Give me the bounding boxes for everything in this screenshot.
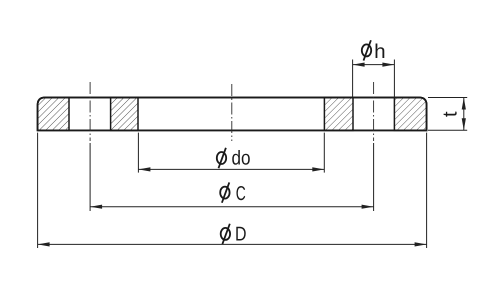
- dimension phi-do extension lines: [137, 133, 139, 173]
- hatched rim right: [394, 98, 426, 131]
- label phi-h symbol: [362, 40, 371, 60]
- dimension phi-h line: [353, 64, 395, 66]
- svg-text:C: C: [236, 183, 246, 205]
- label phi-do symbol: [217, 148, 226, 168]
- outline redraw on top: [38, 98, 427, 131]
- svg-text:h: h: [374, 41, 386, 63]
- svg-text:D: D: [235, 224, 247, 246]
- dimension phi-D line: [38, 243, 427, 245]
- dimension t line: [463, 98, 465, 131]
- svg-text:do: do: [232, 148, 251, 170]
- dimension phi-C line: [90, 206, 374, 208]
- hatched rim left: [38, 98, 69, 131]
- hatched web right: [324, 98, 353, 131]
- flange section body outline: [38, 98, 427, 131]
- centerline left bolt: [89, 82, 91, 141]
- dimension t extension lines: [428, 97, 467, 99]
- hatched web left (between bolt hole and bore): [111, 98, 138, 131]
- dimension phi-do line: [138, 168, 324, 170]
- centerline flange axis: [231, 84, 233, 141]
- label phi-D symbol: [221, 224, 230, 244]
- centerline right bolt: [373, 82, 375, 141]
- label phi-C symbol: [220, 182, 229, 202]
- dimension phi-D extension lines: [37, 133, 39, 248]
- svg-text:t: t: [440, 111, 462, 117]
- dimension phi-C extension lines (bolt centerlines extended): [89, 143, 91, 211]
- dimension phi-h extension lines: [352, 60, 354, 98]
